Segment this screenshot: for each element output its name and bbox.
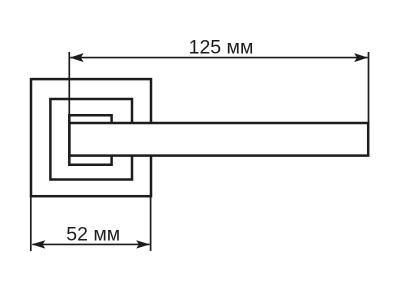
svg-text:52 мм: 52 мм xyxy=(66,224,120,246)
svg-text:125 мм: 125 мм xyxy=(189,37,254,59)
